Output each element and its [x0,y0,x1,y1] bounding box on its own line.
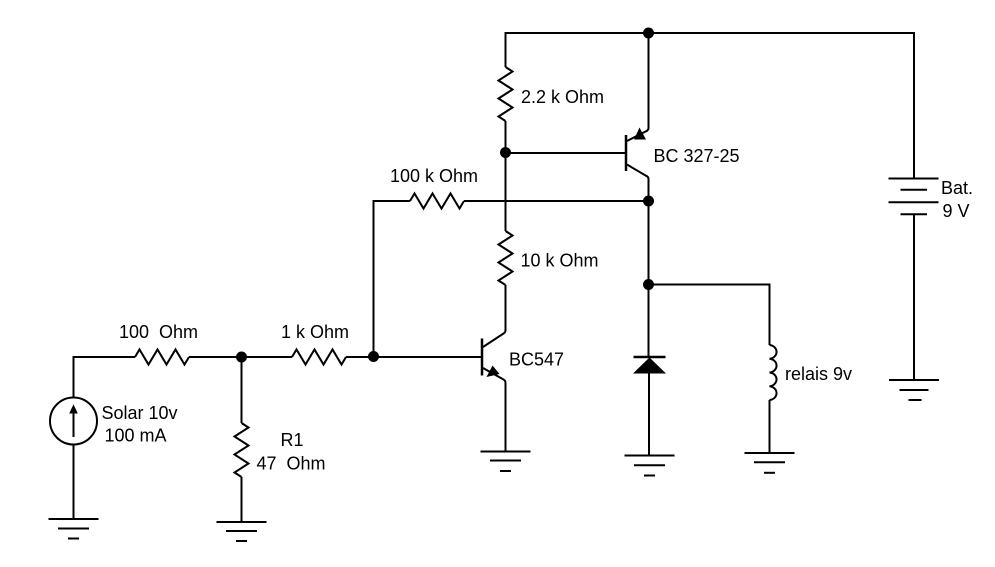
svg-text:9 V: 9 V [943,201,970,221]
ground relay [745,453,795,473]
wire solar top corner [74,357,136,398]
wire 100k left stub [374,200,411,202]
current source arrow head [69,404,78,413]
transistor Q2 emitter lead [627,33,649,141]
svg-text:Bat.: Bat. [941,178,973,198]
wire node to 10k top [505,153,507,231]
svg-text:100 Ohm: 100 Ohm [119,322,198,342]
wire riser from main to 100k [373,200,375,357]
wire 10k bottom to Q1 collector [505,285,507,330]
svg-text:R1: R1 [281,430,304,450]
wire diode bottom to ground [648,373,650,456]
transistor Q2 emitter arrow [634,128,646,140]
resistor R1 47 Ohm [235,423,249,477]
svg-text:10 k Ohm: 10 k Ohm [521,251,599,271]
wire 2.2k bottom to node [505,121,507,153]
svg-text:Solar 10v: Solar 10v [102,403,178,423]
transistor Q2 collector lead [627,165,649,202]
junction dot node riser [368,351,379,362]
wire R1 bottom to ground [241,477,243,522]
svg-text:1 k Ohm: 1 k Ohm [281,322,349,342]
diode D1 cathode bar [634,356,666,359]
ground R1 [217,522,267,541]
wire 2.2k top stub [505,32,507,67]
ground solar [49,519,99,539]
wire relay bottom to ground [769,400,771,453]
svg-text:BC 327-25: BC 327-25 [654,146,740,166]
wire 100k right to node [464,200,649,202]
ground battery [889,380,939,400]
svg-text:2.2 k Ohm: 2.2 k Ohm [521,87,604,107]
svg-text:BC547: BC547 [509,350,564,370]
wire top rail [506,32,915,34]
resistor 100 Ohm [135,350,189,365]
svg-text:100 k Ohm: 100 k Ohm [390,166,478,186]
transistor Q1 collector lead [483,285,506,347]
wire battery bottom drop [913,215,915,381]
resistor 2.2 k Ohm [499,67,513,121]
transistor Q2 BC327 base bar [625,135,628,171]
battery Bat 9V plates [889,179,939,215]
junction dot node top rail [643,28,654,39]
wire node to diode top [648,285,650,358]
diode D1 triangle [633,358,666,374]
wire relay top branch [649,285,770,346]
transistor Q1 emitter lead [483,368,506,452]
current source arrow stem [73,412,75,437]
junction dot node Q2 base [500,147,511,158]
wire battery top drop [913,32,915,179]
wire Q2 base [506,152,626,154]
wire solar bottom to ground [73,445,75,520]
resistor 1 k Ohm R2 [292,350,346,365]
resistor 10 k Ohm [499,231,513,285]
wire Q2 collector to diode node [648,201,650,285]
ground diode [625,456,675,476]
svg-text:100 mA: 100 mA [105,426,167,446]
inductor relay coil relais 9v [770,345,777,400]
wire R1 top [241,357,243,423]
current source Solar 10v circle [50,398,97,445]
junction dot node R1 [236,352,247,363]
resistor 100 k Ohm [410,194,464,209]
ground Q1 emitter [481,452,531,472]
transistor Q1 emitter arrow [487,366,500,378]
junction dot node diode-relay [643,279,654,290]
wire 1k to Q1 base [346,356,481,358]
wire 100Ohm to 1k [189,356,292,358]
svg-text:relais 9v: relais 9v [785,364,852,384]
junction dot node 100k-collector [643,196,654,207]
transistor Q1 BC547 base bar [481,339,484,376]
svg-text:47 Ohm: 47 Ohm [257,454,326,474]
